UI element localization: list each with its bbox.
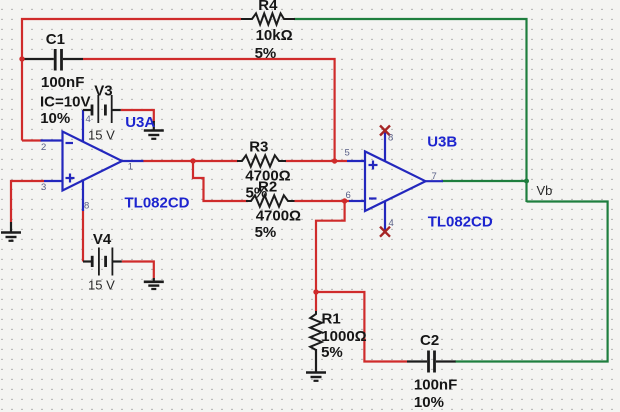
capacitor C2 bbox=[407, 351, 456, 373]
pin 8 U3B bbox=[388, 133, 393, 144]
pin 4 U3B bbox=[389, 218, 394, 229]
value C2 10% bbox=[414, 394, 444, 411]
svg-text:U3A: U3A bbox=[125, 114, 155, 131]
pin 3 U3A bbox=[41, 182, 46, 193]
value V4 15 V bbox=[88, 277, 115, 292]
svg-text:15 V: 15 V bbox=[88, 277, 115, 292]
value C1 IC=10V bbox=[40, 94, 90, 111]
svg-text:15 V: 15 V bbox=[88, 127, 115, 142]
svg-text:4: 4 bbox=[389, 218, 394, 229]
wire: V3 plus to ground bbox=[121, 110, 154, 122]
ground at V4 bbox=[144, 278, 164, 289]
no-connect X on U3B pin8 bbox=[380, 126, 390, 136]
svg-text:10%: 10% bbox=[414, 394, 444, 411]
ground at V3 bbox=[144, 121, 164, 139]
value V3 15 V bbox=[88, 127, 115, 142]
svg-text:C2: C2 bbox=[420, 332, 439, 349]
op-amp U3A bbox=[41, 110, 144, 211]
pin 8 U3A bbox=[84, 201, 89, 212]
wire: V4 plus to ground bbox=[122, 262, 154, 279]
junction: U3B pin5 node bbox=[332, 158, 337, 163]
svg-text:8: 8 bbox=[84, 201, 89, 212]
wire: into U3A pin2 bbox=[22, 139, 42, 141]
svg-text:5%: 5% bbox=[255, 45, 277, 62]
value R2 4700 bbox=[256, 208, 301, 225]
svg-text:V3: V3 bbox=[94, 83, 112, 100]
wire: Vb node to C2 right bbox=[455, 202, 608, 362]
svg-text:5%: 5% bbox=[321, 344, 343, 361]
ground at R1 bbox=[306, 349, 326, 381]
junction: U3A output feedback node bbox=[190, 158, 195, 163]
part TL082CD U3A bbox=[125, 195, 190, 212]
svg-text:100nF: 100nF bbox=[414, 377, 457, 394]
op-amp U3B bbox=[347, 131, 443, 230]
label V4 bbox=[93, 231, 112, 248]
value C2 100nF bbox=[414, 377, 457, 394]
label R1 bbox=[322, 311, 341, 328]
wire: C1 right to U3B pin5 bbox=[83, 59, 335, 161]
pin 7 U3B bbox=[432, 171, 437, 182]
battery V3 bbox=[83, 95, 121, 123]
svg-text:5%: 5% bbox=[255, 224, 277, 241]
value C1 10% bbox=[40, 110, 70, 127]
svg-text:Vb: Vb bbox=[537, 183, 553, 198]
tolerance R4 5% bbox=[255, 45, 277, 62]
part TL082CD U3B bbox=[428, 214, 493, 231]
label C1 bbox=[46, 31, 65, 48]
capacitor C1 bbox=[24, 49, 83, 71]
wire: top feedback net, left vertical + top horizontal to R4 bbox=[22, 19, 241, 141]
svg-text:2: 2 bbox=[41, 142, 46, 153]
label R2 bbox=[258, 178, 277, 195]
resistor R3 bbox=[237, 155, 286, 166]
wire: R1 node to C2 left bbox=[316, 292, 407, 362]
value R3 4700 bbox=[245, 168, 290, 185]
junction: U3B pin6 node bbox=[342, 198, 347, 203]
svg-text:4700Ω: 4700Ω bbox=[256, 208, 301, 225]
label V3 bbox=[94, 83, 112, 100]
svg-text:4: 4 bbox=[86, 114, 91, 125]
tolerance R2 5% bbox=[255, 224, 277, 241]
svg-text:5: 5 bbox=[345, 148, 350, 159]
resistor R2 bbox=[246, 195, 295, 206]
svg-text:U3B: U3B bbox=[427, 134, 457, 151]
wire: pin6 junction down and left to R1 bbox=[316, 201, 345, 292]
svg-text:10kΩ: 10kΩ bbox=[256, 27, 293, 44]
no-connect X on U3B pin4 bbox=[380, 227, 390, 237]
svg-text:IC=10V: IC=10V bbox=[40, 94, 90, 111]
value R4 10k bbox=[256, 27, 293, 44]
svg-text:R4: R4 bbox=[258, 0, 278, 14]
tolerance R3 5% bbox=[246, 185, 268, 202]
svg-text:R2: R2 bbox=[258, 178, 277, 195]
tolerance R1 5% bbox=[321, 344, 343, 361]
svg-text:8: 8 bbox=[388, 133, 393, 144]
wire: U3B output to Vb junction bbox=[442, 180, 527, 182]
svg-text:R1: R1 bbox=[322, 311, 341, 328]
pin 5 U3B bbox=[345, 148, 350, 159]
svg-text:1000Ω: 1000Ω bbox=[321, 328, 366, 345]
value C1 100nF bbox=[41, 74, 84, 91]
svg-text:6: 6 bbox=[346, 190, 351, 201]
junction: Vb output node bbox=[524, 179, 529, 184]
resistor R1 bbox=[310, 311, 322, 372]
svg-text:R3: R3 bbox=[249, 138, 268, 155]
resistor R4 bbox=[241, 13, 295, 24]
wire: U3A output to R3 bbox=[143, 160, 238, 162]
svg-text:100nF: 100nF bbox=[41, 74, 84, 91]
node Vb bbox=[537, 183, 553, 198]
svg-text:TL082CD: TL082CD bbox=[428, 214, 493, 231]
svg-text:10%: 10% bbox=[40, 110, 70, 127]
wire: green net R4 right down to Vb junction bbox=[294, 19, 527, 202]
pin 6 U3B bbox=[346, 190, 351, 201]
label R4 bbox=[258, 0, 278, 14]
svg-text:7: 7 bbox=[432, 171, 437, 182]
junction: C1 left node bbox=[19, 56, 24, 61]
wire: R1 top lead wire bbox=[315, 292, 317, 311]
label R3 bbox=[249, 138, 268, 155]
battery V4 bbox=[83, 248, 122, 276]
wire: U3A pin3 to ground bbox=[11, 181, 44, 222]
pin 1 U3A bbox=[128, 161, 133, 172]
pin 2 U3A bbox=[41, 142, 46, 153]
label U3B bbox=[427, 134, 457, 151]
svg-text:1: 1 bbox=[128, 161, 133, 172]
wire: U3A pin8 down to V4 bbox=[82, 210, 84, 262]
svg-text:C1: C1 bbox=[46, 31, 65, 48]
pin 4 U3A bbox=[86, 114, 91, 125]
svg-text:3: 3 bbox=[41, 182, 46, 193]
wire: R2 right to pin6 junction bbox=[295, 200, 350, 202]
ground at U3A pin3 net bbox=[1, 222, 21, 241]
wire: feedback step from node to R2 bbox=[193, 161, 248, 201]
svg-text:TL082CD: TL082CD bbox=[125, 195, 190, 212]
svg-text:V4: V4 bbox=[93, 231, 112, 248]
label U3A bbox=[125, 114, 155, 131]
value R1 1000 bbox=[321, 328, 366, 345]
junction: R1 top node bbox=[313, 289, 318, 294]
label C2 bbox=[420, 332, 439, 349]
wire: R3 right to pin5 junction bbox=[285, 160, 347, 162]
